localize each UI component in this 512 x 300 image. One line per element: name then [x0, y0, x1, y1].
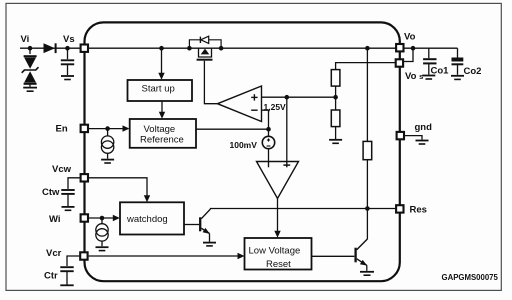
svg-text:Reset: Reset: [266, 259, 291, 270]
node En source junction: [105, 126, 110, 131]
pin En: [81, 125, 88, 132]
node Vo junction: [411, 46, 416, 51]
wire Res line: [210, 208, 396, 210]
wire chain lower: [366, 160, 368, 240]
wire Vs cap stub: [67, 48, 69, 59]
svg-text:100mV: 100mV: [230, 140, 258, 150]
wire Vi to Vo main rail: [20, 47, 458, 49]
wire R1 to R2: [335, 86, 337, 110]
resistor R3: [363, 141, 372, 159]
node comparator feed junction: [285, 95, 290, 100]
source V-100mV: [262, 136, 274, 148]
svg-text:Vcr: Vcr: [46, 248, 62, 259]
svg-text:Co2: Co2: [464, 66, 482, 77]
wire comparator plus feed: [286, 97, 288, 161]
wire non-inverting line: [262, 96, 336, 98]
comparator U2 (low voltage detector): [257, 162, 299, 199]
transistor Q1 (watchdog output NPN): [200, 209, 210, 242]
ground (Vs cap): [61, 76, 74, 80]
svg-text:Voltage: Voltage: [144, 124, 176, 135]
node supply chain junction: [365, 46, 370, 51]
svg-text:Reference: Reference: [140, 135, 184, 146]
wire to Start up: [161, 48, 163, 73]
svg-text:Ctw: Ctw: [42, 187, 60, 198]
wire inverting input branch: [262, 110, 269, 136]
pin gnd: [397, 132, 404, 139]
svg-text:Wi: Wi: [49, 214, 61, 225]
svg-text:Start up: Start up: [142, 84, 175, 95]
wire comparator output: [277, 199, 279, 232]
pin Vs: [81, 45, 88, 52]
svg-text:Vo: Vo: [404, 32, 416, 43]
node Wi junction: [100, 216, 105, 221]
watchdog box: [120, 202, 184, 234]
capacitor Co2 (polarized): [452, 58, 464, 75]
pin Vo s: [396, 59, 403, 66]
wire Wi to watchdog: [88, 217, 114, 219]
wire Vo s outside: [404, 48, 414, 61]
wire Vo s sense line: [336, 63, 395, 70]
diode D1 (series input diode): [44, 43, 56, 53]
svg-text:watchdog: watchdog: [126, 214, 168, 225]
Start up box: [128, 80, 193, 101]
ground (TVS): [23, 88, 37, 92]
wire gate to op-amp: [204, 61, 217, 104]
node VR out junction: [266, 127, 271, 132]
node Res junction: [365, 206, 370, 211]
wire Start up to Voltage Reference: [161, 101, 163, 113]
capacitor Ctr: [60, 256, 80, 285]
svg-text:Vi: Vi: [21, 34, 30, 45]
IC body (rounded box): [85, 22, 400, 281]
wire R2 to ground: [335, 127, 337, 139]
transistor Q2 (reset output NPN): [356, 239, 368, 271]
node Vs cap junction: [65, 46, 70, 51]
capacitor Ctw: [61, 178, 80, 206]
svg-text:Vs: Vs: [63, 34, 75, 45]
wire watchdog to Q1: [184, 224, 199, 226]
capacitor Co1: [423, 59, 436, 74]
node Vi junction: [28, 46, 33, 51]
ground (gnd pin): [416, 141, 429, 145]
ground (Q2): [360, 272, 374, 275]
ground (Ctw): [62, 207, 75, 210]
svg-text:Res: Res: [410, 205, 427, 216]
svg-text:Vcw: Vcw: [52, 164, 72, 175]
resistor R2: [331, 110, 340, 127]
ground (Co2): [451, 76, 464, 80]
current source I-Wi: [96, 218, 108, 246]
Voltage Reference box: [130, 119, 196, 148]
capacitor C-Vs: [61, 60, 74, 75]
wire gnd pin to ground: [404, 136, 422, 140]
ground (En source): [101, 160, 114, 163]
op-amp U1 (error amplifier): [218, 86, 262, 122]
ground (Wi source): [96, 247, 109, 250]
Low Voltage Reset box: [245, 238, 312, 270]
TVS Z1 (bidirectional zener): [22, 56, 39, 87]
pin Wi: [81, 214, 88, 221]
wire LVR to Q2: [312, 255, 355, 257]
wire Co1 branch: [428, 48, 430, 58]
resistor R1: [331, 70, 340, 87]
wire En to Voltage Reference: [88, 128, 124, 130]
wire TVS stub: [29, 48, 31, 54]
svg-text:En: En: [56, 124, 68, 135]
node divider midpoint junction: [333, 95, 338, 100]
pin Res: [396, 205, 403, 212]
ground (Q1): [203, 243, 216, 246]
svg-text:Ctr: Ctr: [44, 271, 58, 282]
pin Vo: [396, 44, 403, 51]
node startup feed: [159, 46, 164, 51]
wire chain upper: [366, 48, 368, 141]
wire Vcr to Low Voltage Reset: [88, 255, 239, 257]
transistor Q-pass (PMOS with body diode): [187, 36, 223, 60]
svg-text:gnd: gnd: [415, 122, 433, 133]
svg-text:Vo s: Vo s: [405, 71, 423, 82]
svg-text:Low Voltage: Low Voltage: [249, 246, 301, 257]
ground (Co1): [422, 76, 435, 80]
pin Vcr: [80, 252, 87, 259]
current source I-En: [101, 129, 113, 159]
wire VR output: [196, 128, 269, 130]
wire 100mV to comparator: [268, 149, 270, 162]
pin Vcw: [81, 174, 88, 181]
wire Co2 branch: [457, 48, 459, 57]
ground (divider): [329, 140, 342, 144]
svg-text:GAPGMS00075: GAPGMS00075: [442, 273, 499, 282]
wire Vcw to watchdog: [88, 178, 147, 196]
